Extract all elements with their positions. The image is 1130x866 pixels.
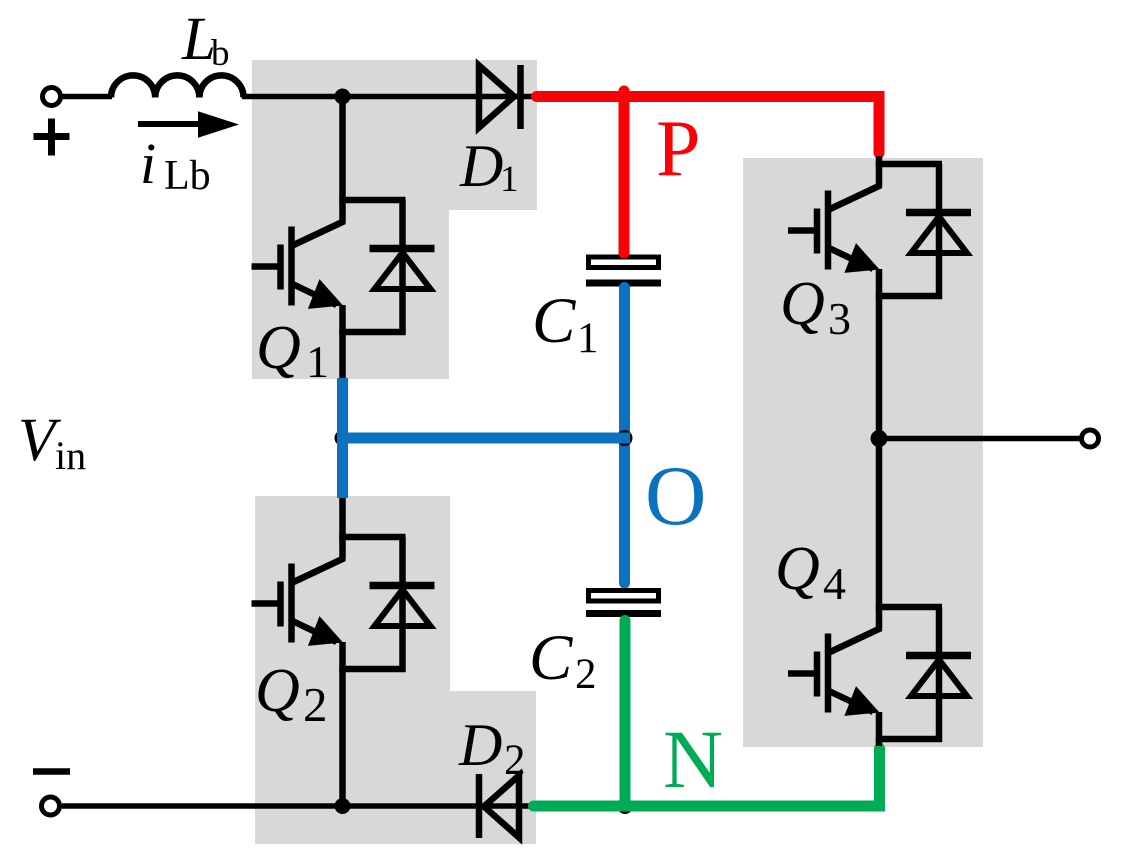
wire Q4 emitter down to green bus xyxy=(876,737,883,746)
wire O blue bus (Q1/Q2 midpoint to capacitor midpoint) xyxy=(337,378,630,498)
transistor Q3 (IGBT with antiparallel diode) xyxy=(788,161,971,299)
label Vin (input voltage) xyxy=(18,407,86,478)
node junction dot on bottom rail at Q2 emitter xyxy=(335,798,351,814)
svg-text:in: in xyxy=(55,433,86,478)
label Q2 xyxy=(255,657,328,732)
wire output to terminal xyxy=(879,436,1082,442)
svg-text:C: C xyxy=(529,622,573,694)
label C2 xyxy=(529,622,597,698)
svg-text:Q: Q xyxy=(780,270,825,338)
wire Q3 emitter to output node xyxy=(876,294,883,440)
label Q3 xyxy=(780,270,851,344)
wire from - terminal to diode D2 xyxy=(62,803,530,809)
wire Q2 collector from node O branch xyxy=(339,496,346,540)
arrow for inductor current iLb xyxy=(138,111,239,138)
plus sign label xyxy=(34,119,70,156)
transistor Q4 (IGBT with antiparallel diode) xyxy=(788,604,971,742)
module shading box for Q2 and D2 (grey L-shape) xyxy=(255,496,536,844)
svg-text:Q: Q xyxy=(255,657,300,725)
minus sign label xyxy=(33,768,70,775)
wire Q1 collector from top rail xyxy=(339,97,346,204)
label O (node O) xyxy=(645,449,706,543)
transistor Q1 (IGBT with antiparallel diode) xyxy=(252,197,435,335)
svg-text:P: P xyxy=(656,105,701,193)
label P (node P) xyxy=(656,105,701,193)
label C1 xyxy=(532,285,599,362)
svg-text:b: b xyxy=(211,33,230,74)
wire Q3 collector from red bus xyxy=(876,156,883,167)
svg-text:Lb: Lb xyxy=(164,153,211,199)
svg-text:D: D xyxy=(458,712,502,778)
svg-text:1: 1 xyxy=(306,336,329,387)
transistor Q2 (IGBT with antiparallel diode) xyxy=(252,534,435,672)
diode D1 xyxy=(479,65,521,129)
label D1 xyxy=(459,133,519,200)
label iLb xyxy=(140,131,211,199)
svg-text:4: 4 xyxy=(823,558,846,609)
node junction dot at Q1-Q2 midpoint xyxy=(335,430,351,446)
inductor Lb (3 arcs) xyxy=(111,75,244,97)
svg-text:1: 1 xyxy=(500,159,519,200)
module shading box for Q3 and Q4 (grey rectangle) xyxy=(743,158,983,747)
capacitor C1 xyxy=(586,257,661,287)
label N (node N) xyxy=(663,713,723,805)
svg-text:Q: Q xyxy=(256,314,301,382)
output terminal (open circle) xyxy=(1082,430,1099,447)
svg-text:2: 2 xyxy=(575,651,597,698)
node junction dot at N on bottom bus xyxy=(617,798,633,814)
wire from + terminal to inductor Lb xyxy=(62,94,112,100)
node junction dot at O on capacitor bus xyxy=(617,430,633,446)
node junction dot at P on dc bus xyxy=(616,89,632,105)
node junction dot on top rail at Q1 collector xyxy=(335,89,351,105)
svg-text:O: O xyxy=(645,449,706,543)
label Q4 xyxy=(775,535,846,609)
svg-text:D: D xyxy=(459,133,503,199)
wire Q4 collector from output node xyxy=(876,439,883,611)
label Lb xyxy=(181,6,230,74)
svg-text:1: 1 xyxy=(577,315,599,362)
input terminal - (open circle) xyxy=(42,797,60,815)
svg-text:3: 3 xyxy=(828,293,851,344)
svg-text:2: 2 xyxy=(504,737,526,784)
capacitor C2 xyxy=(586,591,661,618)
svg-text:2: 2 xyxy=(303,677,328,732)
wire P red bus (D1 to Q3 collector and down to C1) xyxy=(537,91,880,253)
wire N green bus (D2 to C2 and to Q4 emitter) xyxy=(534,621,880,807)
node junction dot at inverter output xyxy=(871,430,888,447)
svg-text:i: i xyxy=(140,131,156,196)
label D2 xyxy=(458,712,526,784)
wire Q1 emitter down to node O branch xyxy=(339,330,346,380)
input terminal + (open circle) xyxy=(43,88,61,106)
svg-text:C: C xyxy=(532,285,576,357)
label Q1 xyxy=(256,314,329,387)
wire O blue bus vertical between C1 and C2 xyxy=(619,288,630,584)
wire Q2 emitter down to bottom rail xyxy=(339,667,346,807)
diode D2 xyxy=(479,774,519,838)
module shading box for Q1 and D1 (grey L-shape) xyxy=(252,60,537,379)
svg-text:Q: Q xyxy=(775,535,820,603)
svg-text:N: N xyxy=(663,713,723,805)
wire from inductor to diode D1 xyxy=(242,94,532,100)
